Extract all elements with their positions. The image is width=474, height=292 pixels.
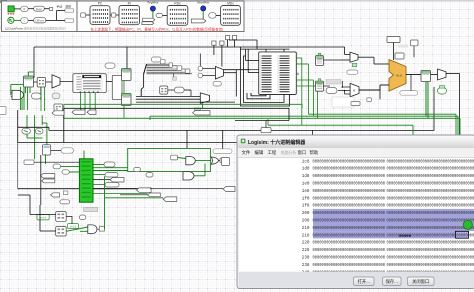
svg-text:000000000000000000000000000000: 00000000000000000000000000000000	[313, 233, 386, 238]
tunnel MemR	[171, 155, 178, 160]
mux M2 (big)	[200, 93, 209, 104]
tunnel row A	[52, 111, 64, 115]
oval right of comparator	[168, 87, 184, 93]
gray bar below state	[84, 207, 98, 211]
svg-text:238: 238	[302, 263, 310, 268]
register IRa	[122, 69, 132, 81]
wire black bus row142	[18, 110, 237, 189]
svg-text:1c8: 1c8	[302, 159, 310, 164]
AND gate G1	[186, 157, 195, 165]
svg-text:手动:: 手动:	[57, 5, 64, 9]
wire regfile left inputs	[246, 49, 259, 73]
svg-text:000000000000000000000000000000: 0000000000000000000000000000000000000000	[387, 189, 474, 194]
svg-text:帮助: 帮助	[310, 149, 319, 156]
svg-text:关闭窗口: 关闭窗口	[412, 278, 429, 285]
svg-text:以ClockPulse:: 以ClockPulse:	[5, 26, 24, 30]
register PCreg	[24, 76, 34, 87]
svg-text:000000000000000000000000000000: 0000000000000000000000000000000000000000	[387, 204, 474, 209]
svg-text:Logisim: 十六进制编辑器: Logisim: 十六进制编辑器	[248, 139, 306, 146]
OR gate G3	[211, 157, 218, 164]
svg-text:000000000000000000000000000000: 00000000000000000000000000000000	[313, 241, 386, 246]
gray bar label	[326, 80, 341, 85]
svg-text:C: C	[23, 19, 25, 23]
AND gate left	[12, 90, 24, 99]
dialog icon	[241, 139, 246, 144]
wire mux M1 out	[224, 70, 251, 97]
caption manual	[57, 5, 72, 9]
pin stem to oval	[199, 54, 201, 67]
tunnel RegWrite	[143, 18, 155, 21]
svg-text:000000000000000000000000000000: 00000000000000000000000000000000	[313, 248, 386, 253]
svg-text:000000000000000000000000000000: 0000000000000000000000000000000000000000	[387, 226, 474, 231]
white note box	[332, 97, 360, 107]
wire ALU out	[406, 75, 421, 91]
green probe dot over dialog	[463, 220, 472, 229]
probe LED RegWrite (blue)	[148, 0, 159, 11]
comparator CB2	[56, 227, 66, 236]
register ALUOut	[421, 71, 431, 82]
register B	[316, 79, 324, 91]
wire green bus 3	[64, 118, 460, 135]
hex edited cell	[399, 235, 412, 239]
wire into state bar top	[83, 151, 85, 159]
box left of dialog edge	[222, 158, 230, 166]
tunnels left of state bar	[41, 174, 55, 183]
wire green bus 2	[150, 116, 458, 135]
wire ALU inputs	[380, 85, 389, 99]
svg-text:打开...: 打开...	[358, 278, 370, 285]
register RDx	[167, 1, 188, 25]
splitter end boxes	[169, 63, 190, 73]
dialog menubar	[238, 148, 474, 158]
label right of OR	[219, 158, 227, 163]
hex selection highlight	[313, 209, 474, 239]
svg-text:MDx: MDx	[227, 1, 234, 5]
tunnel right mid	[150, 187, 235, 192]
gray oval left	[52, 93, 60, 99]
state register bar (bright green)	[79, 159, 93, 202]
svg-text:000000000000000000000000000000: 0000000000000000000000000000000000000000	[387, 167, 474, 172]
wire pin C vertical	[229, 40, 290, 52]
wire RegWrite probe stem	[152, 11, 154, 18]
oval CLK2	[22, 128, 31, 134]
svg-text:000000000000000000000000000000: 0000000000000000000000000000000000000000	[387, 241, 474, 246]
window corner mark	[0, 0, 7, 3]
svg-text:ClkPulse: ClkPulse	[35, 20, 45, 22]
dialog content area	[239, 158, 474, 272]
clock source	[8, 17, 14, 23]
oval right of ff	[213, 131, 232, 154]
tunnel row C	[87, 110, 96, 114]
tunnel MemWrite	[191, 19, 206, 23]
svg-text:PC: PC	[98, 2, 103, 6]
oval CLK label	[21, 18, 28, 24]
flipflop	[43, 145, 51, 155]
label oval ALU result	[400, 91, 418, 96]
wire ALU green bus down	[426, 82, 428, 119]
svg-text:208: 208	[302, 219, 310, 224]
svg-text:MemWrite: MemWrite	[197, 0, 209, 4]
small box above ALU	[395, 53, 404, 59]
tunnel bottom A	[105, 188, 152, 192]
svg-text:000000000000000000000000000000: 0000000000000000000000000000000000000000	[387, 211, 474, 216]
svg-text:000000000000000000000000000000: 00000000000000000000000000000000	[313, 211, 386, 216]
oval SE	[326, 88, 337, 94]
tunnel label left	[105, 63, 115, 68]
svg-text:文件: 文件	[242, 149, 251, 156]
red value marks under pin	[8, 13, 15, 14]
ALU	[389, 60, 406, 91]
labels left lower	[51, 191, 70, 204]
button save	[383, 277, 402, 285]
box right of AND	[97, 227, 105, 232]
svg-text:在上述激励下，期望输出PC、IR、要被写入的RDx、以及写入: 在上述激励下，期望输出PC、IR、要被写入的RDx、以及写入RDx的数据(写使能…	[91, 26, 224, 31]
wire nested loops centre	[251, 74, 299, 96]
register MDx	[221, 1, 241, 25]
result box 1	[65, 9, 74, 12]
oval before RDx	[156, 13, 167, 17]
subcircuit box right of memory	[112, 75, 122, 99]
wire black down from flipflop zone	[40, 155, 42, 205]
caption clockpulse bottom	[5, 26, 66, 30]
svg-text:电路分析: 电路分析	[281, 149, 297, 155]
ovals below state	[79, 215, 85, 220]
svg-text:218: 218	[302, 233, 310, 238]
wire black bottom2	[120, 194, 148, 196]
label T1	[347, 70, 358, 74]
comparator box	[160, 86, 168, 94]
svg-text:000000000000000000000000000000: 00000000000000000000000000000000	[313, 167, 386, 172]
green comp under mux M2	[195, 103, 203, 110]
wire memory greens down	[81, 93, 96, 111]
gray text near ALU	[398, 45, 408, 48]
test panel left box	[2, 1, 78, 32]
svg-text:00000: 00000	[399, 235, 412, 239]
tiny pin box right of ALU label	[411, 40, 419, 57]
label box above ALU	[387, 37, 400, 61]
svg-text:000000000000000000000000000000: 0000000000000000000000000000000000000000	[387, 196, 474, 201]
wire clock tunnel to boxes	[46, 11, 65, 21]
tunnel CLOCK	[34, 18, 46, 23]
svg-text:期望: 期望	[66, 5, 72, 9]
pin square C	[226, 36, 230, 40]
svg-text:000000000000000000000000000000: 00000000000000000000000000000000	[313, 174, 386, 179]
pin square D	[233, 36, 237, 40]
labels left of state bar	[24, 160, 69, 174]
tunnel bottom C	[163, 197, 177, 202]
wire mux ALUB out	[359, 85, 380, 90]
svg-text:210: 210	[302, 226, 310, 231]
button close	[408, 277, 435, 285]
small ovals loop	[134, 168, 153, 178]
svg-text:200: 200	[302, 211, 310, 216]
wire IRa IRb links	[124, 47, 127, 118]
svg-text:000000000000000000000000000000: 0000000000000000000000000000000000000000	[387, 174, 474, 179]
probe box	[50, 7, 53, 10]
button open	[354, 277, 375, 285]
svg-text:000000000000000000000000000000: 00000000000000000000000000000000	[313, 182, 386, 187]
labels right of state bar rows	[93, 173, 148, 194]
svg-text:ALU: ALU	[396, 74, 402, 78]
mux A2	[431, 69, 447, 80]
svg-text:RegWrite: RegWrite	[148, 0, 159, 4]
register A	[316, 53, 324, 65]
svg-text:000000000000000000000000000000: 00000000000000000000000000000000	[313, 204, 386, 209]
window top edge	[0, 0, 474, 2]
oval left row	[32, 93, 42, 99]
wire clock greens	[27, 115, 47, 164]
oval pair right of fan	[198, 66, 203, 78]
AND gate bottom	[88, 225, 97, 234]
wire reg A B outputs	[323, 60, 340, 86]
hex editor dialog	[237, 135, 474, 289]
small box mid	[160, 59, 165, 64]
comparator CB1	[56, 212, 66, 222]
ovals right of state bar	[93, 162, 128, 171]
svg-text:000000000000000000000000000000: 00000000000000000000000000000000	[313, 159, 386, 164]
svg-text:x=1:0: x=1:0	[40, 215, 47, 219]
wire green bus long bottom	[268, 119, 413, 136]
wire clock to oval	[14, 19, 21, 21]
svg-text:Reset: Reset	[36, 8, 43, 11]
mux M1	[203, 67, 224, 80]
wire to probe box	[28, 9, 49, 21]
wire green loop	[128, 148, 211, 171]
tunnel RESET	[34, 6, 45, 11]
svg-text:000000000000000000000000000000: 00000000000000000000000000000000	[313, 226, 386, 231]
svg-text:工程: 工程	[268, 149, 277, 156]
wire greens below adder	[41, 87, 45, 111]
svg-text:000000000000000000000000000000: 0000000000000000000000000000000000000000	[387, 248, 474, 253]
test panel right box	[77, 1, 244, 32]
pin square A	[212, 41, 216, 45]
connector PC to IR	[110, 13, 119, 17]
svg-text:000000000000000000000000000000: 0000000000000000000000000000000000000000	[387, 256, 474, 261]
dialog title text	[248, 139, 306, 146]
tunnel row B	[72, 110, 85, 114]
wire pin to RST oval	[14, 8, 21, 10]
green label x10	[37, 214, 49, 220]
svg-text:228: 228	[302, 248, 310, 253]
half box left edge	[0, 107, 6, 115]
wire mux to memory	[60, 80, 112, 82]
svg-text:000000000000000000000000000000: 00000000000000000000000000000000	[313, 219, 386, 224]
wire mid black vertical	[49, 87, 434, 131]
AND gate G2	[183, 172, 194, 180]
svg-text:x=1:0: x=1:0	[70, 224, 77, 228]
gray label under fan	[173, 73, 177, 80]
svg-text:000000000000000000000000000000: 00000000000000000000000000000000	[313, 196, 386, 201]
pin square B	[220, 41, 224, 45]
mux M3	[52, 75, 60, 88]
wire regfile bottom loops	[241, 47, 290, 106]
green wires memory cluster	[11, 72, 34, 110]
svg-text:230: 230	[302, 256, 310, 261]
svg-text:1f8: 1f8	[302, 204, 310, 209]
svg-text:RDx: RDx	[174, 1, 181, 5]
wire black mid band	[64, 108, 313, 142]
green stems register	[26, 87, 31, 93]
svg-text:000000000000000000000000000000: 0000000000000000000000000000000000000000	[387, 159, 474, 164]
svg-text:000000000000000000000000000000: 0000000000000000000000000000000000000000	[387, 263, 474, 268]
wire adder to mux	[34, 82, 53, 100]
red caption under registers	[91, 26, 224, 31]
svg-text:M: M	[353, 90, 355, 93]
mux ALUB (big)	[350, 83, 359, 96]
svg-text:1e8: 1e8	[302, 189, 310, 194]
label under mux M1	[213, 81, 221, 86]
wire squares stems	[214, 40, 235, 67]
svg-text:1d8: 1d8	[302, 174, 310, 179]
wire MemWrite probe stem	[202, 11, 204, 19]
adder box	[37, 78, 45, 88]
hex cursor box	[456, 231, 469, 238]
tunnel label mid	[152, 57, 162, 62]
wire vertical to loop	[186, 130, 188, 148]
svg-text:000000000000000000000000000000: 00000000000000000000000000000000	[313, 263, 386, 268]
memory block	[73, 74, 106, 93]
const green T1	[352, 63, 357, 66]
wire gate links green	[178, 158, 212, 176]
wire right vertical black	[446, 74, 460, 137]
wire into mux M2	[136, 90, 235, 102]
mux T1	[340, 52, 358, 62]
svg-text:期望多对也可使多周期的指令执行: 期望多对也可使多周期的指令执行	[24, 26, 66, 30]
box above tunnel A	[54, 104, 63, 111]
wire green bus 1	[308, 114, 456, 135]
hex rows	[302, 159, 474, 275]
tunnel under loop	[261, 128, 271, 133]
svg-text:R: R	[23, 7, 25, 11]
svg-text:000000000000000000000000000000: 0000000000000000000000000000000000000000	[387, 219, 474, 224]
svg-text:窗口: 窗口	[298, 149, 307, 156]
svg-text:220: 220	[302, 241, 310, 246]
oval CLK3	[35, 128, 43, 134]
oval before MDx	[209, 13, 221, 19]
wire top bus horizontal	[34, 47, 350, 55]
tunnel RegWrite2	[142, 22, 154, 25]
register PC	[90, 2, 110, 25]
green label x2	[68, 224, 79, 229]
tunnel row D	[193, 111, 210, 116]
svg-text:000000000000000000000000000000: 0000000000000000000000000000000000000000	[387, 182, 474, 187]
wire into mux ALUB	[338, 81, 350, 94]
wire top bus left vertical	[33, 47, 35, 78]
input connector to PC	[81, 13, 90, 17]
register IR	[119, 1, 140, 24]
wire mux T1 out	[358, 57, 389, 64]
input pin RST (green square)	[8, 6, 14, 12]
register IRb	[122, 94, 132, 106]
splitter fanout	[144, 64, 193, 74]
const A2	[438, 86, 447, 95]
dialog button bar	[239, 272, 474, 288]
probe LED MemWrite (blue)	[197, 0, 209, 11]
splitter stem down	[141, 74, 143, 96]
tunnel bottom B	[148, 193, 161, 197]
wire green bottom	[105, 176, 164, 229]
result box 2	[65, 19, 74, 23]
svg-text:1e0: 1e0	[302, 182, 310, 187]
tiny label right of note	[367, 98, 372, 102]
svg-text:000000000000000000000000000000: 00000000000000000000000000000000	[313, 256, 386, 261]
oval RST label	[21, 6, 28, 11]
svg-text:保存...: 保存...	[386, 278, 398, 285]
svg-text:1f0: 1f0	[302, 196, 310, 201]
svg-text:编辑: 编辑	[255, 149, 264, 156]
wire green bus 4	[64, 104, 302, 118]
wires into state bar	[34, 162, 79, 172]
wire regfile right outputs green	[296, 58, 317, 125]
wires bottom cluster	[18, 195, 88, 231]
svg-text:000000000000000000000000000000: 00000000000000000000000000000000	[313, 189, 386, 194]
register file	[259, 52, 297, 95]
label oval flipflop	[51, 148, 74, 153]
svg-text:1d0: 1d0	[302, 167, 310, 172]
